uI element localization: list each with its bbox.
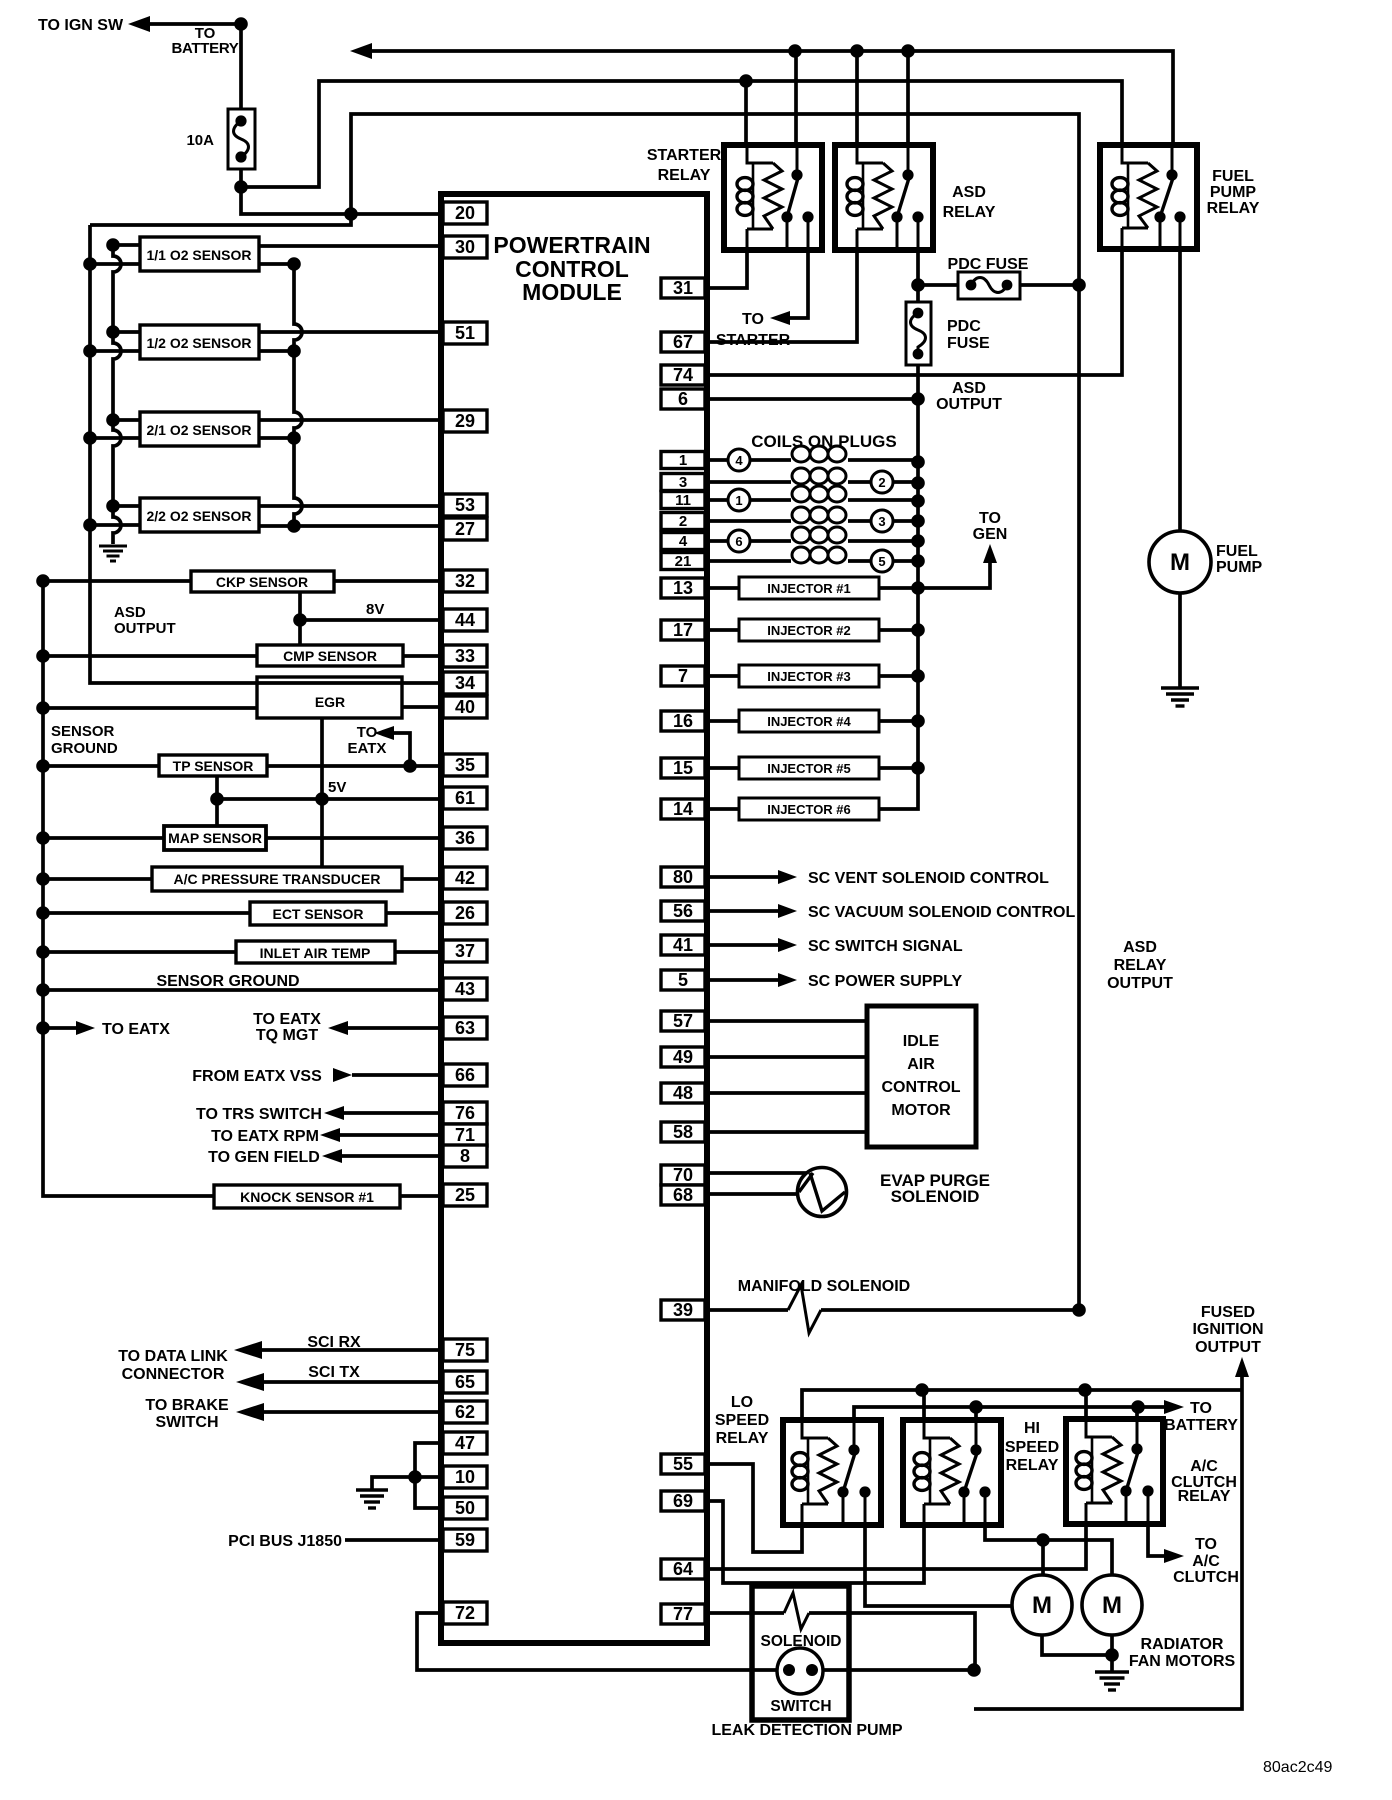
wire TRS to pin76 bbox=[344, 1111, 443, 1115]
svg-text:TO TRS SWITCH: TO TRS SWITCH bbox=[196, 1106, 322, 1123]
svg-text:OUTPUT: OUTPUT bbox=[1107, 975, 1173, 992]
wire CKP to pin32 bbox=[334, 579, 443, 583]
svg-text:STARTER: STARTER bbox=[647, 147, 722, 164]
wire MAP left bbox=[43, 836, 164, 840]
svg-text:2: 2 bbox=[679, 513, 687, 530]
svg-text:CKP SENSOR: CKP SENSOR bbox=[216, 574, 308, 590]
svg-text:66: 66 bbox=[455, 1065, 475, 1085]
wire FP switch to pump bbox=[1178, 249, 1182, 531]
wire 2/2 lower-right bbox=[259, 524, 294, 528]
svg-text:TO BRAKE: TO BRAKE bbox=[145, 1397, 229, 1414]
svg-text:69: 69 bbox=[673, 1491, 693, 1511]
wire CKP left bbox=[43, 579, 191, 583]
pin 80 bbox=[661, 867, 705, 887]
svg-text:SPEED: SPEED bbox=[1005, 1439, 1059, 1456]
arrow TRS bbox=[324, 1106, 344, 1120]
A/C pressure transducer box bbox=[152, 867, 402, 891]
svg-text:2/2 O2 SENSOR: 2/2 O2 SENSOR bbox=[146, 508, 251, 524]
svg-text:TO: TO bbox=[357, 724, 378, 741]
svg-text:RELAY: RELAY bbox=[658, 167, 711, 184]
svg-text:50: 50 bbox=[455, 1498, 475, 1518]
CMP sensor box bbox=[257, 645, 403, 666]
svg-text:36: 36 bbox=[455, 828, 475, 848]
wire 1/1 upper-left bbox=[113, 243, 140, 247]
label TO BRAKE SWITCH bbox=[145, 1397, 229, 1431]
wire ASD coil to pin67 bbox=[708, 250, 857, 342]
wire 2/1 lower-right bbox=[259, 436, 294, 440]
wire relay2 switch stub bbox=[974, 1407, 978, 1420]
svg-text:TO EATX RPM: TO EATX RPM bbox=[211, 1128, 319, 1145]
pin 55 bbox=[661, 1454, 705, 1474]
pin 25 bbox=[443, 1184, 487, 1206]
wire hi relay switch to fans bbox=[985, 1525, 1112, 1575]
label LO SPEED RELAY bbox=[715, 1394, 769, 1447]
svg-text:SC POWER SUPPLY: SC POWER SUPPLY bbox=[808, 973, 962, 990]
svg-text:64: 64 bbox=[673, 1559, 693, 1579]
label TO BATTERY top bbox=[171, 25, 238, 57]
pin 14 bbox=[661, 799, 705, 819]
svg-text:EGR: EGR bbox=[315, 694, 345, 710]
injector #5 box bbox=[739, 757, 879, 779]
injector #2 box bbox=[739, 619, 879, 641]
pin 5 bbox=[661, 970, 705, 990]
wire 2/1 lower-left bbox=[90, 436, 140, 440]
svg-text:1/1 O2 SENSOR: 1/1 O2 SENSOR bbox=[146, 247, 251, 263]
svg-text:PUMP: PUMP bbox=[1210, 184, 1257, 201]
svg-text:POWERTRAIN: POWERTRAIN bbox=[493, 232, 650, 258]
pin 27 bbox=[443, 518, 487, 540]
svg-text:FROM EATX VSS: FROM EATX VSS bbox=[192, 1068, 322, 1085]
svg-text:80: 80 bbox=[673, 867, 693, 887]
ignition coil row 5 (cyl 6) bbox=[708, 527, 918, 552]
wire 1/2 upper-left bbox=[113, 330, 140, 334]
svg-text:8: 8 bbox=[460, 1146, 470, 1166]
svg-text:M: M bbox=[1032, 1592, 1052, 1619]
wire to EATX stub bbox=[43, 1026, 76, 1030]
svg-text:MAP SENSOR: MAP SENSOR bbox=[168, 830, 262, 846]
label FUSED IGNITION OUTPUT bbox=[1192, 1304, 1263, 1356]
wire ASD coil stub bbox=[855, 51, 859, 145]
pin 61 bbox=[443, 787, 487, 809]
svg-text:56: 56 bbox=[673, 901, 693, 921]
svg-text:ASD: ASD bbox=[114, 604, 146, 621]
pin 43 bbox=[443, 978, 487, 1000]
wire junction to vertical fuse bbox=[916, 285, 920, 302]
svg-text:GEN: GEN bbox=[973, 526, 1008, 543]
wire starter switch stub bbox=[794, 51, 798, 145]
pin 71 bbox=[443, 1124, 487, 1146]
wire 1/2 lower-right bbox=[259, 349, 294, 353]
svg-text:42: 42 bbox=[455, 868, 475, 888]
svg-text:BATTERY: BATTERY bbox=[171, 40, 238, 57]
svg-text:TO: TO bbox=[742, 311, 764, 328]
svg-text:31: 31 bbox=[673, 278, 693, 298]
wire ASD switch to PDC junction bbox=[911, 250, 925, 292]
svg-text:CONNECTOR: CONNECTOR bbox=[122, 1366, 225, 1383]
wire TQ MGT to pin63 bbox=[348, 1026, 443, 1030]
svg-text:ECT SENSOR: ECT SENSOR bbox=[272, 906, 363, 922]
arrow sc vacuum solenoid control bbox=[778, 904, 797, 918]
svg-text:RELAY: RELAY bbox=[716, 1430, 769, 1447]
svg-text:43: 43 bbox=[455, 979, 475, 999]
svg-text:2: 2 bbox=[878, 475, 885, 490]
O2 sensor 2/1 box bbox=[140, 412, 259, 446]
svg-text:INJECTOR #1: INJECTOR #1 bbox=[767, 581, 851, 596]
svg-text:TO EATX: TO EATX bbox=[102, 1021, 170, 1038]
arrow GEN FIELD bbox=[322, 1149, 342, 1163]
svg-text:CMP SENSOR: CMP SENSOR bbox=[283, 648, 377, 664]
svg-text:51: 51 bbox=[455, 323, 475, 343]
svg-text:PCI BUS J1850: PCI BUS J1850 bbox=[228, 1533, 342, 1550]
wire sc switch signal bbox=[708, 943, 778, 947]
svg-text:SWITCH: SWITCH bbox=[770, 1698, 831, 1715]
pin 42 bbox=[443, 867, 487, 889]
svg-text:32: 32 bbox=[455, 571, 475, 591]
svg-text:SENSOR: SENSOR bbox=[51, 723, 115, 740]
wire bottom line B2 to battery bbox=[854, 1400, 1164, 1420]
wire pin39 to manifold zigzag bbox=[708, 1308, 788, 1312]
wire bottom line B1 bbox=[802, 1383, 1242, 1420]
wire fused line2 bbox=[241, 74, 1122, 187]
svg-text:SOLENOID: SOLENOID bbox=[891, 1187, 980, 1206]
wire starter switch to starter bbox=[790, 250, 808, 318]
svg-text:14: 14 bbox=[673, 799, 693, 819]
EGR box bbox=[257, 677, 402, 718]
svg-text:5: 5 bbox=[678, 970, 688, 990]
svg-text:10A: 10A bbox=[186, 132, 214, 149]
pin 37 bbox=[443, 940, 487, 962]
injector #4 box bbox=[739, 710, 879, 732]
svg-text:58: 58 bbox=[673, 1122, 693, 1142]
svg-text:PDC: PDC bbox=[947, 318, 981, 335]
wire pin70 to evap bbox=[708, 1171, 810, 1175]
solenoid EVAP purge bbox=[798, 1168, 847, 1217]
wire TP to MAP vertical bbox=[210, 776, 224, 826]
svg-text:RELAY: RELAY bbox=[1178, 1488, 1231, 1505]
svg-text:39: 39 bbox=[673, 1300, 693, 1320]
svg-text:49: 49 bbox=[673, 1047, 693, 1067]
ignition coil row 4 (cyl 3) bbox=[708, 507, 918, 532]
pin 10 bbox=[443, 1466, 487, 1488]
svg-text:59: 59 bbox=[455, 1530, 475, 1550]
svg-text:33: 33 bbox=[455, 646, 475, 666]
pin 74 bbox=[661, 365, 705, 385]
arrow to EATX mid bbox=[374, 726, 394, 740]
wire PCI to pin59 bbox=[345, 1538, 443, 1542]
wire ASD relay output vertical bbox=[1077, 285, 1081, 1310]
pin 20 bbox=[443, 202, 487, 224]
arrow TO GEN up bbox=[983, 544, 997, 563]
pin 2 bbox=[661, 513, 705, 531]
svg-text:2/1 O2 SENSOR: 2/1 O2 SENSOR bbox=[146, 422, 251, 438]
wire ac relay switch to clutch bbox=[1148, 1524, 1164, 1556]
svg-text:OUTPUT: OUTPUT bbox=[1195, 1339, 1261, 1356]
svg-text:48: 48 bbox=[673, 1083, 693, 1103]
relay K1 starter bbox=[724, 145, 822, 250]
ground O2 bus bbox=[99, 545, 127, 548]
wire pin to idle air motor y1093 bbox=[708, 1091, 867, 1095]
arrow to battery top bbox=[350, 43, 372, 59]
svg-text:TO EATX: TO EATX bbox=[253, 1011, 321, 1028]
svg-text:ASD: ASD bbox=[1123, 939, 1157, 956]
wire knock to pin25 bbox=[400, 1194, 443, 1198]
svg-text:RELAY: RELAY bbox=[1006, 1457, 1059, 1474]
label PDC FUSE vertical bbox=[947, 318, 990, 352]
wire ign sw to fuse top junction bbox=[150, 17, 248, 31]
relay K6 A/C clutch bbox=[1066, 1419, 1163, 1524]
svg-text:SPEED: SPEED bbox=[715, 1412, 769, 1429]
svg-text:41: 41 bbox=[673, 935, 693, 955]
svg-text:TO GEN FIELD: TO GEN FIELD bbox=[208, 1149, 320, 1166]
svg-text:TO: TO bbox=[1195, 1536, 1217, 1553]
pin 35 bbox=[443, 754, 487, 776]
pin 64 bbox=[661, 1559, 705, 1579]
svg-text:6: 6 bbox=[735, 534, 742, 549]
arrow sc vent solenoid control bbox=[778, 870, 797, 884]
svg-text:FUEL: FUEL bbox=[1216, 543, 1258, 560]
relay K4 lo speed bbox=[783, 1420, 881, 1525]
wire sc vent solenoid control bbox=[708, 875, 778, 879]
label TO EATX TQ MGT bbox=[253, 1011, 321, 1044]
wire 8V to pin44 bbox=[300, 618, 443, 622]
arrow TQ MGT bbox=[328, 1021, 348, 1035]
arrow from EATX VSS bbox=[333, 1068, 352, 1082]
svg-text:SC VACUUM SOLENOID CONTROL: SC VACUUM SOLENOID CONTROL bbox=[808, 904, 1075, 921]
wire injector1 to gen bbox=[918, 563, 990, 588]
svg-text:5: 5 bbox=[878, 554, 885, 569]
pin 58 bbox=[661, 1122, 705, 1142]
wire vertical fuse to pin6 junction bbox=[911, 365, 925, 406]
wire 2/2 lower-left bbox=[90, 523, 140, 527]
pin 47 bbox=[443, 1432, 487, 1454]
label TO BATTERY bottom bbox=[1164, 1400, 1238, 1434]
pin 57 bbox=[661, 1011, 705, 1031]
arrow sc power supply bbox=[778, 973, 797, 987]
svg-text:8V: 8V bbox=[366, 601, 384, 618]
wire O2 heater bus A to EGR/pin34 bbox=[83, 225, 443, 683]
pin 72 bbox=[443, 1602, 487, 1624]
svg-text:13: 13 bbox=[673, 578, 693, 598]
wire CMP to pin33 bbox=[403, 654, 443, 658]
svg-text:RADIATOR: RADIATOR bbox=[1141, 1636, 1224, 1653]
ground radiator fans bbox=[1095, 1670, 1129, 1673]
wire 2/2 to pin53 bbox=[259, 504, 443, 508]
wire starter coil stub bbox=[744, 81, 748, 145]
wire ECT left bbox=[43, 911, 250, 915]
wire ASD switch stub bbox=[906, 51, 910, 145]
ground pins bracket bbox=[356, 1488, 388, 1491]
pin 13 bbox=[661, 578, 705, 598]
motor M radiator fan 1 bbox=[1012, 1575, 1072, 1635]
svg-text:57: 57 bbox=[673, 1011, 693, 1031]
pin 34 bbox=[443, 672, 487, 694]
svg-text:FUSED: FUSED bbox=[1201, 1304, 1255, 1321]
svg-text:TO: TO bbox=[979, 510, 1001, 527]
wire ign to pin20 bbox=[241, 187, 443, 221]
relay K2 ASD bbox=[835, 145, 933, 250]
wire pins 47-10-50 bracket bbox=[415, 1443, 443, 1508]
svg-text:1/2 O2 SENSOR: 1/2 O2 SENSOR bbox=[146, 335, 251, 351]
wire TP left bbox=[43, 764, 159, 768]
pin 32 bbox=[443, 570, 487, 592]
label ASD RELAY bbox=[943, 184, 996, 221]
wire pin to injector #5 bbox=[708, 766, 739, 770]
motor M radiator fan 2 bbox=[1082, 1575, 1142, 1635]
wire pin to injector #2 bbox=[708, 628, 739, 632]
svg-text:LO: LO bbox=[731, 1394, 753, 1411]
wire 1/1 lower-right bbox=[259, 262, 294, 266]
fuse PDC horizontal bbox=[958, 272, 1020, 299]
pin 59 bbox=[443, 1529, 487, 1551]
wire MAP to pin36 bbox=[266, 836, 443, 840]
svg-text:27: 27 bbox=[455, 519, 475, 539]
injector #3 box bbox=[739, 665, 879, 687]
svg-text:INJECTOR #2: INJECTOR #2 bbox=[767, 623, 851, 638]
label ASD OUTPUT left bbox=[114, 604, 176, 637]
svg-text:KNOCK SENSOR #1: KNOCK SENSOR #1 bbox=[240, 1189, 374, 1205]
svg-text:MANIFOLD SOLENOID: MANIFOLD SOLENOID bbox=[738, 1278, 910, 1295]
pin 69 bbox=[661, 1491, 705, 1511]
ECT sensor box bbox=[250, 902, 386, 925]
svg-text:29: 29 bbox=[455, 411, 475, 431]
svg-text:80ac2c49: 80ac2c49 bbox=[1263, 1759, 1332, 1776]
pin 6 bbox=[661, 389, 705, 409]
svg-text:26: 26 bbox=[455, 903, 475, 923]
wire pin to injector #1 bbox=[708, 586, 739, 590]
pin 51 bbox=[443, 322, 487, 344]
svg-text:A/C: A/C bbox=[1192, 1553, 1220, 1570]
wire fan1 feed bbox=[1041, 1540, 1045, 1575]
svg-text:6: 6 bbox=[678, 389, 688, 409]
pin 11 bbox=[661, 492, 705, 510]
wire 5V to pin61 bbox=[217, 797, 443, 801]
svg-text:74: 74 bbox=[673, 365, 693, 385]
wire pin69 to hi relay coil bbox=[708, 1501, 924, 1583]
svg-text:65: 65 bbox=[455, 1372, 475, 1392]
wire pin68 to evap bbox=[708, 1192, 799, 1196]
wire 2/2 upper-left bbox=[113, 504, 140, 508]
wire transducer to pin42 bbox=[402, 877, 443, 881]
label RADIATOR FAN MOTORS bbox=[1129, 1636, 1236, 1670]
wire O2 return bus C to pin27 bbox=[287, 257, 443, 533]
svg-text:SWITCH: SWITCH bbox=[155, 1414, 218, 1431]
svg-text:LEAK DETECTION PUMP: LEAK DETECTION PUMP bbox=[711, 1722, 902, 1739]
wire fan2 to ground bbox=[1105, 1635, 1119, 1672]
pin 33 bbox=[443, 645, 487, 667]
svg-text:TQ MGT: TQ MGT bbox=[256, 1027, 318, 1044]
svg-text:ASD: ASD bbox=[952, 380, 986, 397]
pin 76 bbox=[443, 1102, 487, 1124]
svg-text:5V: 5V bbox=[328, 779, 346, 796]
wire fuse bottom junction bbox=[234, 169, 248, 194]
svg-text:BATTERY: BATTERY bbox=[1164, 1417, 1238, 1434]
wire 1/2 lower-left bbox=[90, 349, 140, 353]
svg-text:INJECTOR #4: INJECTOR #4 bbox=[767, 714, 851, 729]
svg-text:15: 15 bbox=[673, 758, 693, 778]
wire 1/2 to pin51 bbox=[259, 330, 443, 334]
wire to horizontal PDC fuse bbox=[918, 283, 958, 287]
switch leak detection pump bbox=[777, 1648, 823, 1694]
O2 sensor 1/2 box bbox=[140, 325, 259, 359]
wire pin6 to ASD bus bbox=[708, 397, 918, 401]
wire EGR to pin40 bbox=[402, 705, 443, 709]
svg-text:RELAY: RELAY bbox=[943, 204, 996, 221]
wire injector #4 to ASD bus bbox=[879, 719, 918, 723]
wire SCI RX to pin75 bbox=[262, 1348, 443, 1352]
label TO GEN bbox=[973, 510, 1008, 543]
wire relay3 coil stub bbox=[1084, 1390, 1088, 1419]
pin 40 bbox=[443, 696, 487, 718]
wire injector #1 to ASD bus bbox=[879, 586, 918, 590]
svg-text:INJECTOR #3: INJECTOR #3 bbox=[767, 669, 851, 684]
svg-text:62: 62 bbox=[455, 1402, 475, 1422]
pin 44 bbox=[443, 609, 487, 631]
svg-text:TO DATA LINK: TO DATA LINK bbox=[118, 1348, 228, 1365]
svg-text:TP SENSOR: TP SENSOR bbox=[173, 758, 254, 774]
wire CKP to CMP vertical bbox=[293, 592, 307, 645]
wire PDC fuse to ASD output line bbox=[1020, 278, 1086, 292]
arrow SCI RX bbox=[234, 1341, 262, 1359]
svg-text:EATX: EATX bbox=[348, 740, 387, 757]
svg-text:25: 25 bbox=[455, 1185, 475, 1205]
wire jog to O2 heater bus bbox=[90, 214, 351, 225]
arrow to EATX small left bbox=[76, 1021, 95, 1035]
wire pin64 to ac relay coil bbox=[708, 1524, 1086, 1569]
svg-text:17: 17 bbox=[673, 620, 693, 640]
pin 41 bbox=[661, 935, 705, 955]
O2 sensor 1/1 box bbox=[140, 237, 259, 271]
pin 30 bbox=[443, 236, 487, 258]
label FUEL PUMP RELAY bbox=[1207, 168, 1260, 217]
svg-text:M: M bbox=[1170, 549, 1190, 576]
fuse 10A bbox=[228, 109, 255, 169]
svg-text:3: 3 bbox=[878, 514, 885, 529]
svg-text:44: 44 bbox=[455, 610, 475, 630]
svg-text:55: 55 bbox=[673, 1454, 693, 1474]
svg-text:68: 68 bbox=[673, 1185, 693, 1205]
svg-text:HI: HI bbox=[1024, 1420, 1040, 1437]
label ASD OUTPUT right bbox=[936, 380, 1002, 413]
svg-text:72: 72 bbox=[455, 1603, 475, 1623]
svg-text:TO IGN SW: TO IGN SW bbox=[38, 17, 124, 34]
pin 8 bbox=[443, 1145, 487, 1167]
wire pin to injector #4 bbox=[708, 719, 739, 723]
pin 68 bbox=[661, 1185, 705, 1205]
label SENSOR GROUND left bbox=[51, 723, 118, 757]
pin 63 bbox=[443, 1017, 487, 1039]
pin 75 bbox=[443, 1339, 487, 1361]
svg-text:71: 71 bbox=[455, 1125, 475, 1145]
label A/C CLUTCH RELAY bbox=[1171, 1458, 1237, 1505]
pin 17 bbox=[661, 620, 705, 640]
pin 15 bbox=[661, 758, 705, 778]
svg-text:IGNITION: IGNITION bbox=[1192, 1321, 1263, 1338]
svg-text:7: 7 bbox=[678, 666, 688, 686]
svg-text:GROUND: GROUND bbox=[51, 740, 118, 757]
ground fuel pump bbox=[1161, 686, 1199, 689]
wire VSS to pin66 bbox=[352, 1073, 443, 1077]
svg-text:63: 63 bbox=[455, 1018, 475, 1038]
ignition coil row 3 (cyl 1) bbox=[708, 486, 918, 511]
svg-text:4: 4 bbox=[735, 453, 743, 468]
svg-text:FUSE: FUSE bbox=[947, 335, 990, 352]
wire EGR to transducer vertical bbox=[315, 718, 329, 867]
svg-text:CLUTCH: CLUTCH bbox=[1173, 1569, 1239, 1586]
svg-text:SENSOR GROUND: SENSOR GROUND bbox=[156, 973, 299, 990]
wire injector #3 to ASD bus bbox=[879, 674, 918, 678]
TP sensor box bbox=[159, 755, 267, 776]
fuse PDC vertical bbox=[906, 302, 931, 365]
